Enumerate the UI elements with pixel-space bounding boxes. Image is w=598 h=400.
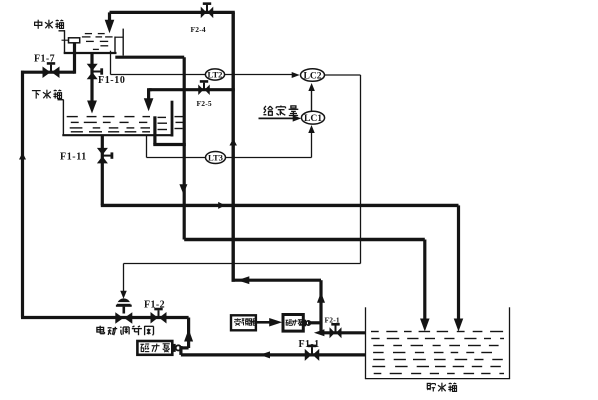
- weir overflow pipe: [153, 116, 186, 144]
- pipe: middle tank drain through F1-10: [90, 53, 93, 101]
- valve F1-7: [43, 62, 60, 78]
- flow arrow up on left riser: [19, 153, 26, 160]
- flow arrow up on pump2 riser: [317, 292, 325, 303]
- pipe: F1-7 feed line into middle tank: [21, 43, 75, 74]
- middle tank shell: [59, 29, 124, 56]
- label F2-5: [197, 99, 212, 108]
- svg-text:LT2: LT2: [208, 70, 223, 80]
- label F2-4: [191, 25, 206, 34]
- svg-text:LC1: LC1: [304, 113, 322, 124]
- pipe: F2-4 top line: [110, 11, 235, 14]
- pipe: bottom supply line: [21, 316, 189, 319]
- pipe: overflow run to storage tank: [184, 238, 425, 241]
- svg-text:F1-1: F1-1: [299, 339, 320, 350]
- level controller LC2: [301, 69, 325, 82]
- label 中水箱 (middle water tank): [35, 20, 64, 29]
- pipe: middle tank overflow line: [115, 56, 184, 59]
- pipe: F2-5 drop into lower tank: [144, 88, 154, 111]
- pipe: overflow drop at storage tank: [420, 240, 430, 332]
- pipe: pump1 nub connector: [180, 346, 189, 349]
- flow arrow right on drain run: [218, 202, 225, 209]
- pipe: F2-5 branch line: [151, 88, 235, 91]
- flow arrow left on transfer line: [237, 276, 249, 284]
- level transmitter LT3: [206, 152, 226, 164]
- pipe: F2-4 drop into middle tank: [105, 12, 115, 33]
- pipe: drain run to storage tank: [101, 204, 459, 207]
- pipe: pump1 suction line from storage tank: [181, 353, 366, 356]
- pipe: pump2 nub connector: [308, 321, 321, 324]
- pipe: lower tank drain through F1-11: [101, 135, 104, 205]
- inverter 变频器: [231, 315, 256, 330]
- valve F2-4: [201, 2, 214, 18]
- flow arrow up on main riser: [229, 139, 237, 146]
- svg-text:F1-7: F1-7: [34, 54, 55, 65]
- svg-text:F2-1: F2-1: [325, 316, 340, 325]
- signal: LC2 output to control valve: [120, 75, 360, 299]
- pipe: F2-1 line from storage tank: [321, 331, 366, 334]
- flow arrow down into lower tank: [87, 101, 97, 114]
- pump P1 磁力泵: [137, 341, 181, 355]
- signal: LT2 to LC2: [225, 72, 300, 78]
- svg-text:F2-5: F2-5: [197, 99, 212, 108]
- flow arrow left on F2-1 line: [314, 329, 325, 336]
- setpoint arrow into LC1: [259, 115, 302, 122]
- label F1-2: [144, 300, 165, 311]
- pipe: transfer line to main riser: [232, 279, 321, 282]
- label F1-10: [98, 75, 125, 86]
- svg-text:F1-11: F1-11: [60, 152, 87, 163]
- label F1-11: [60, 152, 87, 163]
- flow arrow up on pump1 riser: [184, 329, 193, 342]
- label 下水箱 (lower water tank): [32, 90, 62, 99]
- pump P2 (inverter-driven 磁力泵): [283, 315, 310, 332]
- storage tank shell: [365, 307, 510, 378]
- signal: LT2 tap from middle tank: [111, 51, 206, 75]
- storage tank water: [371, 332, 504, 374]
- signal: LT3 to LC1: [226, 125, 315, 158]
- pipe: main riser: [231, 12, 234, 281]
- level transmitter LT2: [205, 69, 224, 80]
- pipe: pump2 riser: [319, 280, 322, 334]
- label F2-1: [325, 316, 340, 325]
- svg-text:LT3: LT3: [208, 153, 223, 163]
- pipe: pump1 suction stub: [179, 346, 182, 355]
- valve F2-1: [330, 323, 342, 338]
- valve F1-11: [97, 148, 113, 164]
- level controller LC1: [301, 111, 324, 124]
- flow arrow down on overflow downcomer: [179, 184, 187, 194]
- pipe: drain drop at storage tank: [454, 205, 464, 331]
- drive arrow 变频器 to pump P2: [256, 318, 282, 327]
- electric control valve 电动调节阀: [115, 298, 132, 323]
- valve F1-10: [87, 64, 103, 80]
- pipe: pump1 discharge riser: [187, 318, 190, 349]
- label 电动调节阀: [97, 326, 154, 336]
- lower tank water: [67, 117, 184, 132]
- valve F1-1: [305, 345, 320, 361]
- label 给定量 (setpoint): [263, 106, 298, 116]
- label 贮水箱 (storage tank): [427, 383, 456, 392]
- middle tank water: [82, 34, 113, 50]
- float sensor box: [62, 38, 80, 43]
- lower tank shell: [58, 100, 173, 137]
- label F1-7: [34, 54, 55, 65]
- svg-text:F1-2: F1-2: [144, 300, 165, 311]
- signal: LC1 to LC2 cascade: [308, 83, 315, 111]
- flow arrow left on suction line: [260, 351, 271, 358]
- label F1-1: [299, 339, 320, 350]
- svg-text:F1-10: F1-10: [98, 75, 125, 86]
- pipe: left riser: [21, 71, 24, 318]
- valve F1-2: [151, 308, 167, 324]
- svg-text:F2-4: F2-4: [191, 25, 206, 34]
- svg-text:LC2: LC2: [303, 70, 321, 81]
- pipe: overflow downcomer: [183, 57, 186, 239]
- signal: LT3 tap from lower tank: [147, 135, 206, 158]
- valve F2-5: [198, 80, 210, 95]
